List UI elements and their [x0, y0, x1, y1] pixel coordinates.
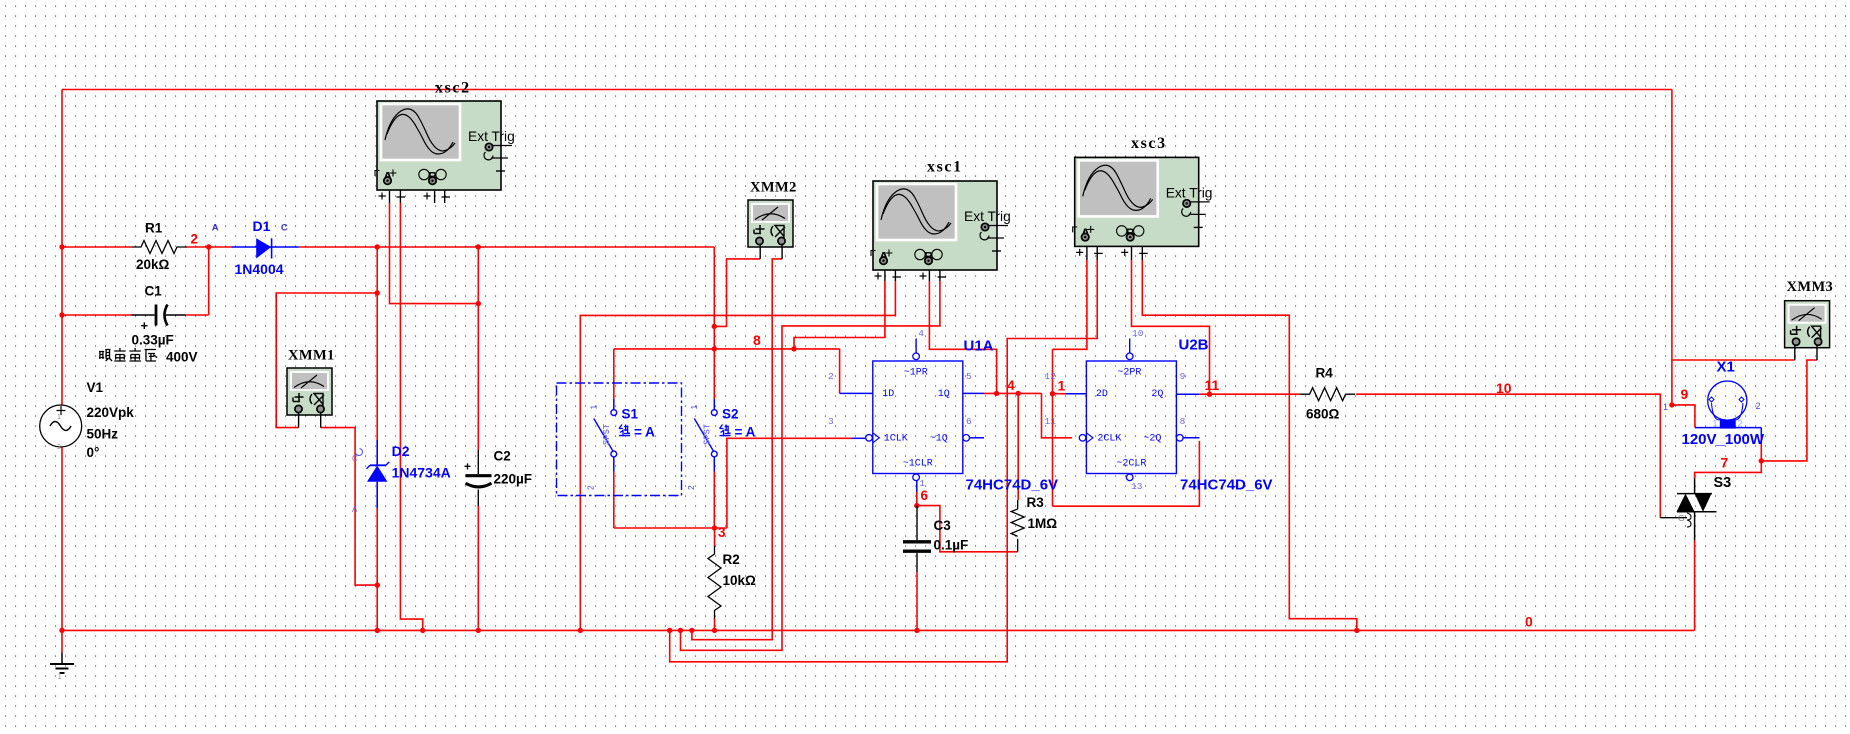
wire XSC3 A- path — [670, 260, 1097, 662]
wire XSC1 B- line — [681, 281, 940, 650]
wire V1 riser vertical — [61, 90, 63, 406]
wire C2 riser top — [477, 247, 479, 450]
capacitor C1 — [132, 284, 186, 348]
U1A ~1Q lead — [963, 435, 970, 442]
junction (422.7,630.4) — [420, 628, 425, 633]
svg-text:1: 1 — [57, 414, 61, 421]
wire node2 vertical — [208, 247, 210, 315]
svg-text:A: A — [212, 223, 219, 234]
wire R2 bottom to bus — [714, 618, 716, 630]
svg-text:1: 1 — [588, 405, 598, 410]
junction (377.2,293) — [375, 290, 380, 295]
U2B 2D lead — [1065, 393, 1086, 395]
junction (377.2,247) — [375, 244, 380, 249]
source V1 — [40, 380, 135, 460]
svg-text:1Q: 1Q — [938, 389, 950, 400]
svg-text:S2: S2 — [722, 407, 739, 422]
wire XMM1 minus path — [321, 428, 378, 585]
switch group dashed box — [557, 383, 682, 496]
svg-text:1: 1 — [58, 672, 63, 681]
svg-text:xsc1: xsc1 — [927, 159, 963, 176]
wire 1CLR pin red — [916, 492, 918, 506]
wire net3 S2 bottom down — [713, 472, 715, 529]
svg-text:0.33µF: 0.33µF — [132, 333, 174, 348]
multimeter XMM1 — [287, 368, 332, 415]
svg-text:Ext Trig: Ext Trig — [1166, 185, 1213, 200]
svg-text:1: 1 — [1058, 378, 1066, 394]
svg-text:Ext Trig: Ext Trig — [964, 209, 1011, 224]
resistor R2 — [708, 546, 756, 619]
svg-text:120V_100W: 120V_100W — [1682, 431, 1765, 448]
oscilloscope XSC1 — [871, 181, 1011, 280]
junction (377.2,630.4) — [375, 628, 380, 633]
svg-text:C: C — [281, 223, 288, 234]
svg-text:2: 2 — [585, 485, 595, 490]
svg-text:~1Q: ~1Q — [930, 434, 948, 445]
svg-text:2D: 2D — [1096, 389, 1108, 400]
svg-text:4: 4 — [918, 328, 924, 339]
svg-text:C2: C2 — [494, 449, 511, 464]
wire net6 from 1CLR dot — [917, 506, 1018, 552]
svg-text:G: G — [1678, 513, 1685, 523]
op-amp U2B flip-flop 74HC74D_6V — [1079, 339, 1176, 481]
wire XSC1 A+ line — [794, 281, 885, 349]
wire net9 top rail from V1 to lamp — [62, 89, 1672, 91]
switch S1 — [585, 399, 655, 490]
wire C1 right to node2 column — [186, 314, 209, 316]
svg-text:SPST: SPST — [602, 424, 611, 445]
wire net9 drop to lamp pin1 — [1672, 405, 1695, 428]
svg-text:2Q: 2Q — [1151, 389, 1163, 400]
svg-text:9: 9 — [1180, 371, 1186, 382]
wire C2 riser bottom — [477, 506, 479, 630]
diode D1 — [212, 218, 299, 277]
svg-text:C3: C3 — [934, 518, 952, 533]
wire net11 2Q to R4 — [1199, 393, 1300, 395]
wire C3 bottom to bus — [916, 572, 918, 630]
svg-text:3: 3 — [718, 525, 726, 540]
svg-text:~2CLR: ~2CLR — [1116, 459, 1146, 470]
wire D2 riser top — [376, 247, 378, 440]
svg-text:= A: = A — [735, 425, 756, 440]
junction (1052.5,393.7) — [1050, 391, 1055, 396]
junction (62,630.4) — [59, 628, 64, 633]
resistor R3 — [1011, 495, 1057, 552]
svg-text:6: 6 — [966, 416, 972, 427]
wire XSC2 A+ path — [390, 203, 479, 304]
svg-text:~2PR: ~2PR — [1117, 368, 1141, 379]
junction (478.3,247) — [476, 244, 481, 249]
svg-text:6: 6 — [921, 488, 929, 503]
svg-text:8: 8 — [753, 332, 761, 348]
junction (1671.9,404.9) — [1669, 402, 1674, 407]
svg-text:= A: = A — [634, 425, 655, 440]
svg-text:74HC74D_6V: 74HC74D_6V — [1180, 477, 1273, 494]
wire net1 top to XSC3 A+ — [1053, 260, 1087, 349]
U1A 1D lead — [840, 392, 873, 394]
wire net4 to 2CLK — [1042, 393, 1073, 437]
svg-text:220µF: 220µF — [494, 472, 533, 487]
wire net7 to S3 top — [1695, 461, 1762, 478]
svg-text:S1: S1 — [622, 407, 639, 422]
capacitor C3 — [903, 506, 968, 573]
junction (62,247) — [59, 244, 64, 249]
junction (714.5,630.4) — [712, 628, 717, 633]
junction (669.7,630.4) — [667, 628, 672, 633]
svg-text:220Vpk: 220Vpk — [87, 405, 135, 420]
svg-text:74HC74D_6V: 74HC74D_6V — [966, 477, 1059, 494]
junction (377.3,585.1) — [375, 582, 380, 587]
svg-text:U2B: U2B — [1179, 337, 1209, 354]
svg-text:1: 1 — [1713, 419, 1718, 429]
XMM2 pin stubs — [759, 244, 761, 259]
triac S3 — [1660, 475, 1731, 540]
svg-text:U1A: U1A — [964, 338, 994, 355]
svg-text:13: 13 — [1131, 481, 1143, 492]
wire XMM2 plus path — [714, 259, 760, 327]
junction (680.5,630.4) — [678, 628, 683, 633]
svg-text:4: 4 — [1007, 377, 1015, 393]
wire XSC1 A- line — [580, 281, 895, 630]
wire R3 top riser — [1017, 393, 1019, 500]
svg-text:2: 2 — [686, 485, 696, 490]
svg-text:5: 5 — [966, 371, 972, 382]
wire node2 segment R1 to D1 — [186, 246, 232, 248]
svg-text:0: 0 — [1525, 614, 1533, 630]
svg-text:2: 2 — [191, 232, 199, 247]
ground symbol — [50, 653, 74, 682]
wire R2 top lead — [714, 528, 716, 546]
svg-text:xsc2: xsc2 — [435, 80, 471, 97]
svg-text:+: + — [141, 318, 149, 333]
junction (478.3,630.4) — [476, 628, 481, 633]
svg-text:S3: S3 — [1714, 475, 1732, 491]
junction (580.3,630.4) — [578, 628, 583, 633]
lamp X1 — [1663, 359, 1765, 449]
svg-text:XMM3: XMM3 — [1787, 279, 1834, 295]
wire net9 rail drop at x1671.9 — [1671, 90, 1673, 405]
junction (917,630.4) — [914, 628, 919, 633]
U2B 2Q lead — [1176, 393, 1199, 395]
svg-text:XMM2: XMM2 — [750, 180, 797, 196]
junction (714.3,326.4) — [712, 324, 717, 329]
svg-text:20kΩ: 20kΩ — [136, 257, 170, 272]
wire S3 bottom to bus — [1694, 540, 1696, 630]
svg-text:D1: D1 — [253, 218, 271, 234]
C1 rating chinese text — [99, 350, 112, 361]
XSC2 pin stubs — [389, 191, 391, 204]
junction (1356.8,630.4) — [1354, 628, 1359, 633]
wire x714 column D1 row to S2 top — [713, 247, 715, 399]
svg-text:1N4004: 1N4004 — [235, 261, 284, 277]
junction (794,348.9) — [791, 346, 796, 351]
svg-text:50Hz: 50Hz — [87, 427, 119, 442]
svg-text:2: 2 — [57, 444, 61, 451]
wire net3 riser to 1CLK — [727, 438, 852, 528]
wire XMM1 plus path — [276, 293, 377, 428]
capacitor C2 — [464, 449, 532, 507]
wire net1 vertical — [1052, 349, 1054, 506]
svg-text:R3: R3 — [1027, 495, 1045, 510]
XMM3 pin stubs — [1794, 345, 1796, 361]
junction (714.5,528) — [712, 525, 717, 530]
svg-text:680Ω: 680Ω — [1306, 407, 1340, 422]
junction (714.3,348.9) — [712, 346, 717, 351]
svg-text:1MΩ: 1MΩ — [1028, 516, 1058, 531]
wire XMM3 minus path — [1761, 360, 1817, 461]
svg-text:C1: C1 — [145, 284, 163, 299]
XSC1 pin stubs — [884, 271, 886, 282]
switch S2 — [686, 399, 756, 490]
XMM1 pin stubs — [298, 412, 300, 428]
svg-text:R1: R1 — [145, 221, 163, 236]
svg-text:7: 7 — [1721, 455, 1729, 471]
svg-text:1: 1 — [689, 405, 699, 410]
wire net10 R4 to S3 gate — [1356, 394, 1660, 518]
wire D2 riser bottom — [376, 508, 378, 630]
svg-text:12: 12 — [1045, 371, 1057, 382]
wire net0 ground bus — [62, 629, 1695, 631]
junction (62,315) — [59, 312, 64, 317]
junction (478.3,303.6) — [476, 301, 481, 306]
XSC3 pin stubs — [1086, 247, 1088, 260]
U1A 1CLK lead blue — [852, 437, 866, 439]
wire XSC3 B+ path — [1132, 260, 1210, 394]
junction (1761.3,460.9) — [1759, 458, 1764, 463]
junction (916.8,505.6) — [914, 503, 919, 508]
op-amp U1A flip-flop 74HC74D_6V — [866, 339, 963, 481]
wire net9 branch to XMM3 plus — [1672, 359, 1795, 361]
svg-text:1N4734A: 1N4734A — [392, 465, 451, 481]
svg-text:11: 11 — [1205, 377, 1220, 393]
resistor R1 — [132, 221, 187, 273]
svg-text:2: 2 — [1738, 419, 1743, 429]
wire net3 S1 bottom down — [613, 472, 615, 529]
svg-text:C: C — [352, 454, 358, 463]
svg-text:10: 10 — [1496, 380, 1512, 396]
multimeter XMM2 — [748, 200, 793, 247]
wire net4 1Q row — [984, 392, 1042, 394]
svg-text:~2Q: ~2Q — [1143, 434, 1161, 445]
wire V1 bottom to ground bus — [61, 447, 63, 653]
svg-text:8: 8 — [1180, 416, 1186, 427]
svg-text:400V: 400V — [166, 350, 198, 365]
wire R1 row left — [62, 246, 132, 248]
U1A 1Q lead — [963, 392, 984, 394]
wire net1 bottom to 2Qbar — [1053, 441, 1200, 506]
svg-text:10: 10 — [1132, 328, 1144, 339]
wire XSC1 B+ to net4 — [929, 281, 996, 393]
multimeter XMM3 — [1785, 301, 1830, 348]
oscilloscope XSC3 — [1073, 157, 1213, 256]
svg-text:R4: R4 — [1316, 366, 1334, 381]
diode D2 zener — [352, 440, 451, 514]
svg-text:2: 2 — [828, 371, 834, 382]
wire net1 2D lead red — [1053, 393, 1066, 395]
U2B ~2Q lead — [1177, 435, 1184, 442]
svg-text:2: 2 — [1756, 401, 1761, 411]
svg-text:D2: D2 — [392, 443, 410, 459]
wire C1 row left — [62, 314, 132, 316]
svg-text:X1: X1 — [1717, 359, 1735, 376]
svg-text:11: 11 — [1045, 416, 1057, 427]
svg-text:+: + — [464, 460, 471, 474]
svg-text:SPST: SPST — [702, 424, 711, 445]
wire S1 top riser — [613, 349, 615, 399]
svg-text:XMM1: XMM1 — [288, 348, 335, 364]
junction (1018.2,393.4) — [1016, 391, 1021, 396]
svg-text:9: 9 — [1681, 386, 1689, 402]
svg-text:2CLK: 2CLK — [1097, 434, 1121, 445]
wire net8 rail — [614, 348, 840, 350]
svg-text:1: 1 — [1663, 402, 1668, 412]
junction (691.9,630.4) — [689, 628, 694, 633]
svg-text:3: 3 — [828, 416, 834, 427]
svg-text:V1: V1 — [87, 380, 104, 395]
U1A ~1CLR pin lead — [916, 481, 918, 492]
wire D1 cathode row to x714 — [299, 246, 715, 248]
svg-text:~1CLR: ~1CLR — [903, 459, 933, 470]
svg-text:1: 1 — [919, 478, 925, 489]
junction (996.6,393.4) — [994, 391, 999, 396]
svg-text:xsc3: xsc3 — [1131, 135, 1167, 152]
oscilloscope XSC2 — [375, 101, 515, 200]
svg-text:10kΩ: 10kΩ — [723, 573, 757, 588]
svg-text:1D: 1D — [882, 389, 894, 400]
svg-text:Ext Trig: Ext Trig — [468, 129, 515, 144]
wire net3 horizontal — [614, 527, 727, 529]
wire net8 to U1A 1D riser — [839, 349, 841, 394]
svg-text:0.1µF: 0.1µF — [934, 538, 969, 553]
junction (208.7,247) — [206, 244, 211, 249]
resistor R4 — [1300, 366, 1355, 422]
wire XSC2 A- path — [400, 203, 422, 630]
svg-text:~1PR: ~1PR — [904, 368, 928, 379]
wire XMM2 minus path — [692, 259, 782, 640]
junction (1209.5,394.2) — [1207, 392, 1212, 397]
svg-text:0°: 0° — [87, 445, 100, 460]
svg-text:R2: R2 — [723, 552, 740, 567]
wire net7 lamp pin2 down — [1760, 437, 1762, 461]
wire XSC3 B- path — [1142, 260, 1357, 630]
svg-text:A: A — [352, 505, 358, 514]
svg-text:1CLK: 1CLK — [884, 434, 908, 445]
